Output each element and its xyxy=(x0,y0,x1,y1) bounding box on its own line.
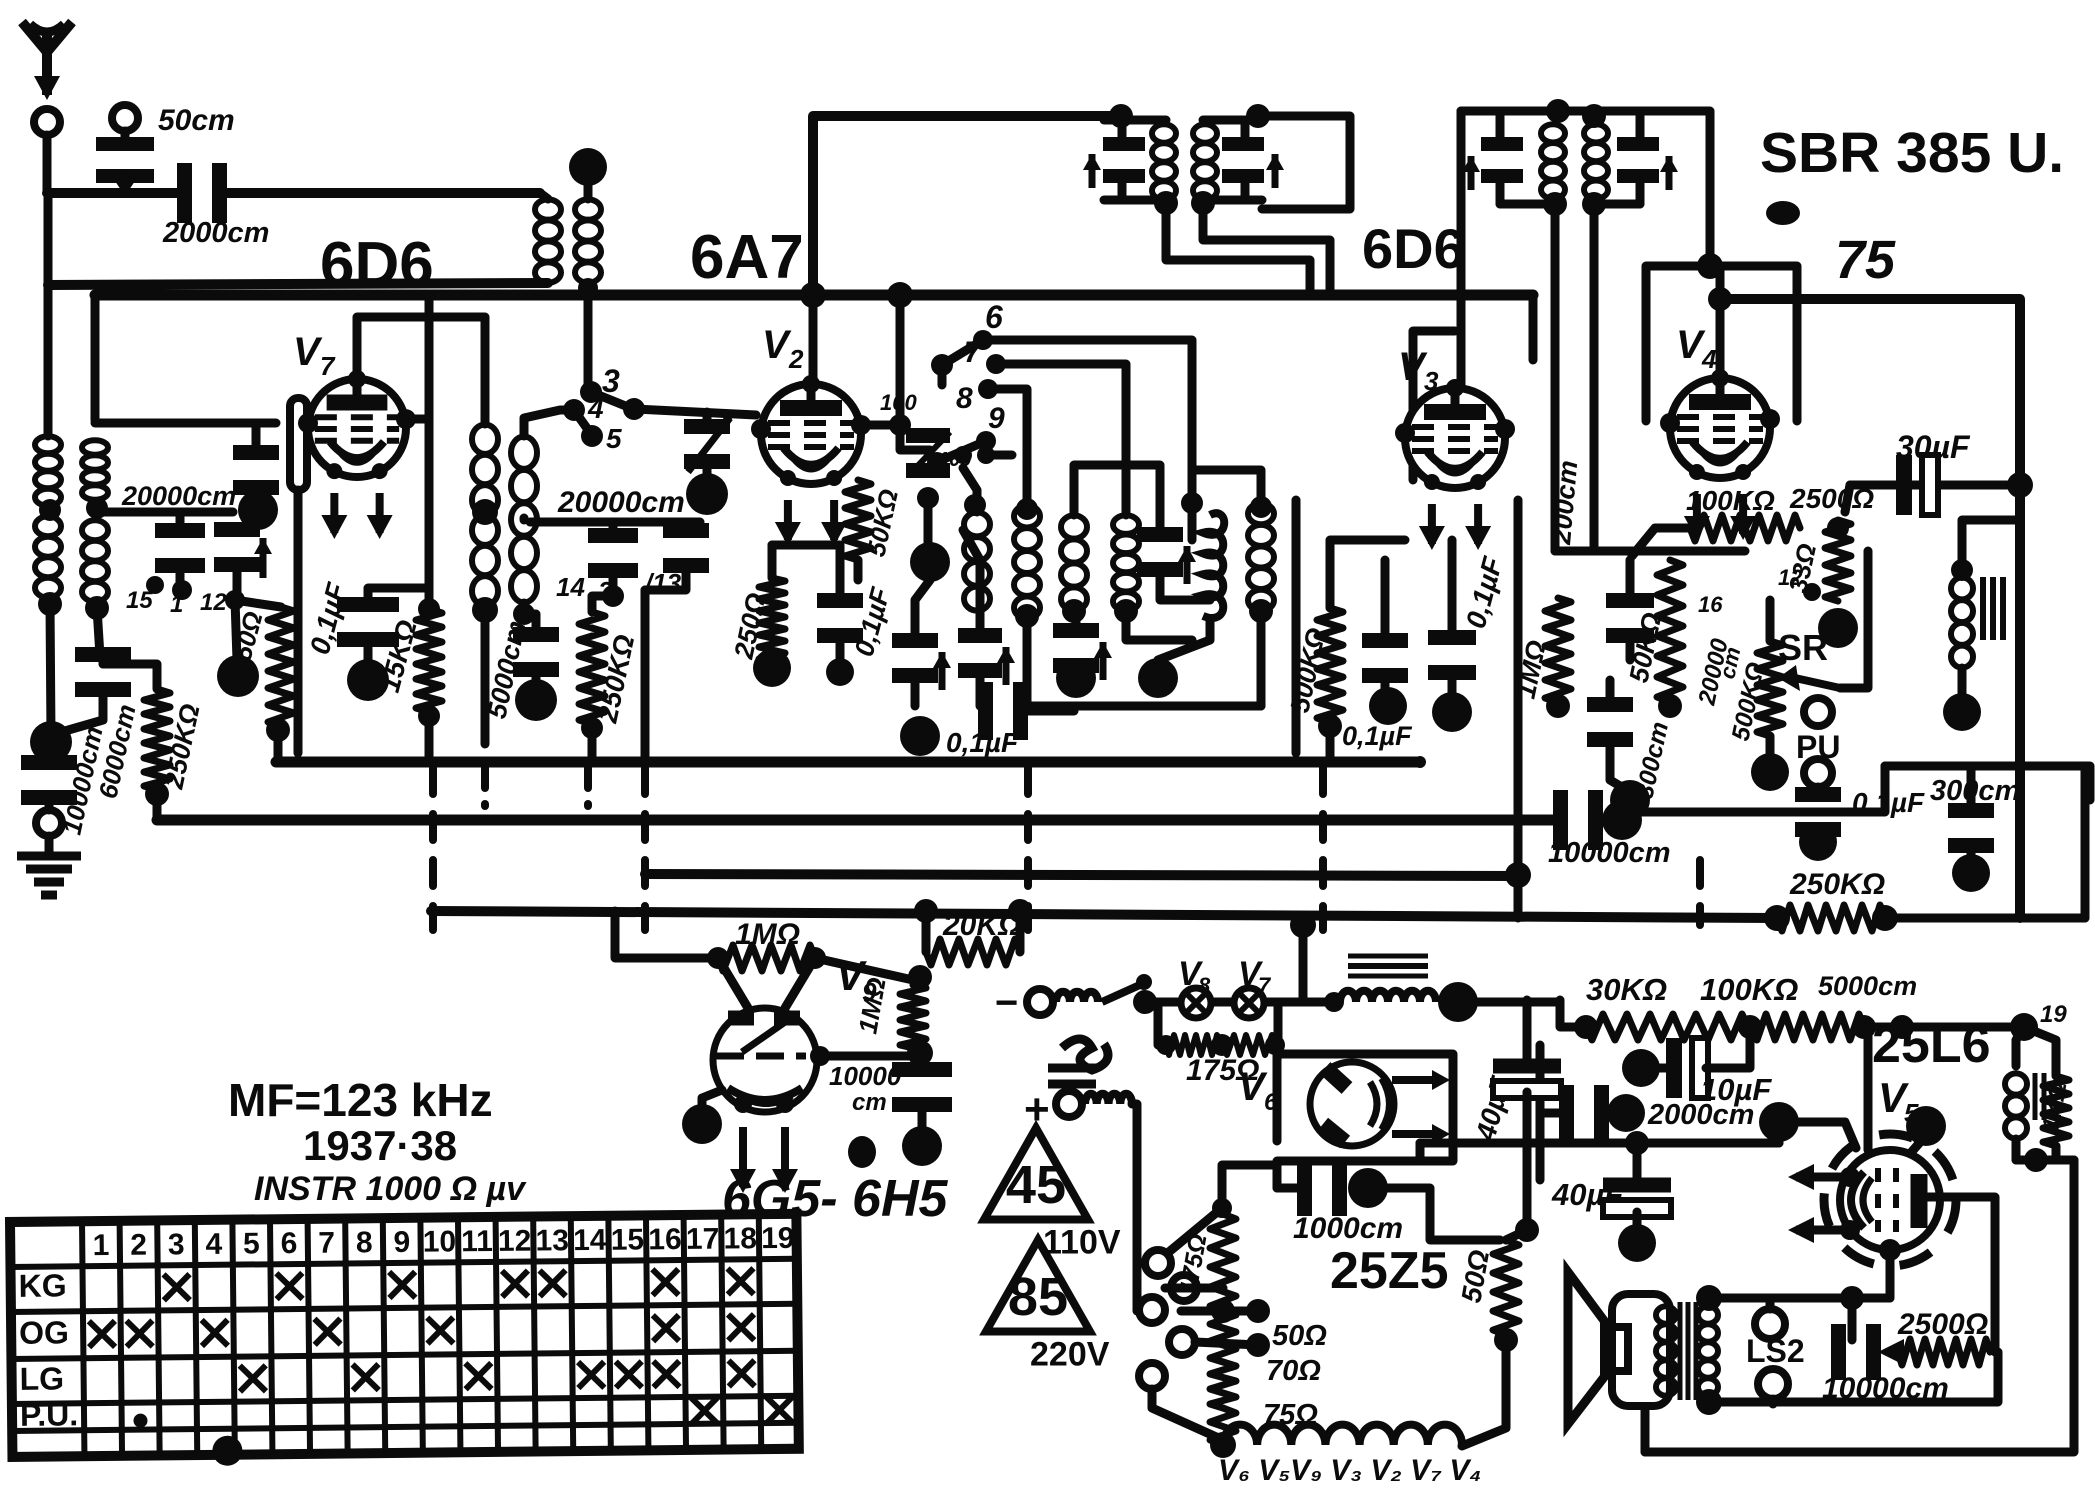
label 100K v4 xyxy=(1686,485,1775,516)
arrow under c3 xyxy=(1094,642,1112,680)
resistor 1M v9 xyxy=(718,945,815,971)
label V2 sub xyxy=(788,344,804,374)
ift4 arrow xyxy=(1660,156,1678,190)
wire hum down xyxy=(2016,1156,2074,1165)
wire 1000cm dn xyxy=(1368,1188,1500,1240)
label 50ohm b xyxy=(1455,1247,1495,1305)
wire pivot6 down xyxy=(938,365,947,385)
label 50000cm xyxy=(482,618,532,721)
capacitor 20000cm mid xyxy=(588,536,638,571)
junction 2000cm xyxy=(1607,1094,1645,1132)
label SBR 385 U. xyxy=(1760,121,2064,185)
label cm v9 xyxy=(852,1089,887,1116)
lead cap50 to bus xyxy=(121,178,130,193)
capacitor padder xyxy=(906,436,950,471)
potentiometer 500K SR xyxy=(1757,641,1783,736)
junction v9cap bot xyxy=(902,1126,942,1166)
ift2 cap leads xyxy=(1241,120,1250,140)
wire 100K right xyxy=(1864,1023,1902,1032)
wire capB to blob xyxy=(235,600,237,660)
junction chain bot xyxy=(1210,1432,1236,1458)
wire V3 top xyxy=(1457,292,1466,388)
ift3 lead up xyxy=(1496,116,1505,140)
junction L6 bottom xyxy=(513,603,535,625)
label MF=123kHz xyxy=(228,1074,493,1126)
wire c2 drop xyxy=(1023,616,1032,706)
svg-text:1937·38: 1937·38 xyxy=(303,1122,457,1169)
label 75 xyxy=(1835,230,1896,290)
junction tone bot xyxy=(1943,693,1981,731)
label 175 xyxy=(1186,1054,1259,1087)
wire ift3 bottom xyxy=(1500,200,1551,209)
blob v9 xyxy=(848,1136,876,1168)
coil L6 osc sec xyxy=(511,436,537,603)
wire antenna bus xyxy=(47,188,180,198)
speaker cone xyxy=(1568,1272,1628,1424)
capacitor out 10000cm xyxy=(1839,1324,1874,1380)
coil speaker primary xyxy=(1656,1306,1676,1396)
wire 250K to bus xyxy=(153,794,162,820)
label 13 xyxy=(644,568,682,598)
wire 2000cm left xyxy=(1540,1109,1562,1118)
wire 40uF2 up xyxy=(1633,1143,1642,1182)
wire hum top xyxy=(1902,1023,2024,1032)
coil osc c4 xyxy=(1113,515,1139,611)
wire pot top xyxy=(1766,600,1775,641)
capacitor grid V7 xyxy=(233,453,279,488)
resistor 250K left xyxy=(144,689,170,790)
resistor 175 B xyxy=(1224,1035,1275,1055)
contact 8 xyxy=(978,379,998,399)
lead c20k mid xyxy=(609,522,618,531)
label 50K v2 xyxy=(861,486,904,559)
wire c6 top up xyxy=(1192,470,1261,503)
junction v3cap bot xyxy=(1432,692,1472,732)
wire v2 cath link xyxy=(772,545,840,596)
antenna terminal A1 xyxy=(34,109,60,135)
coil L2 antenna secondary xyxy=(575,199,601,283)
wire V7 plate to right xyxy=(406,415,429,424)
wire v5 cath xyxy=(1886,1250,1895,1298)
svg-text:P.U.: P.U. xyxy=(20,1396,78,1433)
junction cap01 bottom xyxy=(347,659,389,701)
svg-text:1000cm: 1000cm xyxy=(1293,1212,1403,1245)
label SR xyxy=(1778,627,1828,668)
junction L3 bottom xyxy=(38,592,62,616)
dashed stub x588 xyxy=(584,766,592,806)
label 40uF 2 xyxy=(1551,1177,1624,1212)
svg-text:10: 10 xyxy=(423,1225,457,1258)
switch out 3 xyxy=(623,398,645,420)
capacitor 30uF xyxy=(1904,455,1938,515)
arrowhead cap50 xyxy=(113,178,137,196)
wire 50b down xyxy=(1462,1340,1506,1446)
junction 50K bot xyxy=(1658,694,1682,718)
wire lamp rect xyxy=(1145,998,1336,1007)
label 6G5-6H5 xyxy=(722,1170,949,1228)
resistor 500K v3 xyxy=(1317,608,1343,722)
wire spk bot run xyxy=(1709,1398,1890,1407)
wire b+ run xyxy=(1420,1139,1779,1148)
coil L4b grid xyxy=(82,520,108,602)
junction tone top xyxy=(1951,559,1973,581)
wire 40uF2 dn xyxy=(1633,1212,1642,1232)
label 200cm xyxy=(1546,459,1583,546)
wire c5cap up xyxy=(1074,465,1160,530)
coil ift2 xyxy=(1193,124,1217,200)
svg-text:V: V xyxy=(762,323,792,367)
svg-text:1: 1 xyxy=(170,591,183,618)
lead LS1 xyxy=(1766,1298,1775,1309)
label 2 xyxy=(597,576,613,606)
wire V7 plate up xyxy=(425,295,434,419)
label V7b sub xyxy=(1258,973,1272,998)
junction capA bottom xyxy=(172,580,192,600)
junction ift4 bottom xyxy=(1582,192,1606,216)
wire blob down xyxy=(49,742,51,762)
label 50ohm xyxy=(227,608,269,663)
svg-text:250KΩ: 250KΩ xyxy=(1789,868,1885,901)
coil osc c6 xyxy=(1248,503,1274,611)
v6 electrodes xyxy=(1323,1068,1390,1142)
junction 33 bot xyxy=(1818,608,1858,648)
tube V2 6A7 xyxy=(751,375,871,546)
contact 5 xyxy=(581,425,603,447)
ift4 lead dn xyxy=(1636,180,1645,204)
wire V3 rect xyxy=(1413,331,1455,480)
svg-text:4: 4 xyxy=(1701,344,1717,374)
junction 100K right xyxy=(1827,517,1849,539)
wire main bus y295 xyxy=(95,290,1533,301)
coil L3a antenna xyxy=(35,436,61,506)
dashed gang line 4 xyxy=(1319,768,1327,930)
wire oscB up xyxy=(963,530,980,631)
wire c7 run xyxy=(996,364,1126,515)
svg-text:2: 2 xyxy=(130,1229,147,1262)
junction 300cm bot xyxy=(1952,854,1990,892)
label 100b xyxy=(938,449,971,471)
junction c1 top xyxy=(964,494,986,516)
wire V4 rect xyxy=(1646,266,1797,421)
capacitor osc B xyxy=(958,636,1002,671)
junction tap2b xyxy=(1211,1299,1235,1323)
coil plus lead xyxy=(1085,1094,1132,1104)
label 0.1uF V7 xyxy=(304,579,353,658)
wire plus run xyxy=(1132,1104,1137,1311)
wire cap300 up xyxy=(1606,680,1615,700)
wire tap1 xyxy=(1165,1284,1223,1293)
junction L5 mid xyxy=(472,499,498,525)
junction L5 bottom xyxy=(472,597,498,623)
junction c20k mid xyxy=(602,585,624,607)
lead cmidr xyxy=(682,522,691,526)
wire box rail2 xyxy=(97,508,233,517)
capacitor mid right xyxy=(663,531,709,566)
contact 6 xyxy=(973,330,993,350)
label 16 xyxy=(1698,592,1723,617)
label 6D6 V7 xyxy=(320,230,434,299)
wire x1296 col xyxy=(1292,500,1301,753)
label 15K xyxy=(374,617,423,696)
label 40uF 1 xyxy=(1470,1072,1517,1144)
resistor 1M v9b xyxy=(900,985,926,1048)
svg-text:LG: LG xyxy=(19,1360,64,1396)
svg-text:7: 7 xyxy=(320,351,336,381)
coil osc c5 xyxy=(1203,513,1224,618)
wire 250K top xyxy=(103,664,157,689)
svg-text:15: 15 xyxy=(126,587,153,614)
coil osc c3 xyxy=(1061,515,1087,611)
contact 100b xyxy=(977,446,995,464)
junction 100K R xyxy=(1852,1015,1876,1039)
wire lamp to v6rect xyxy=(1277,1045,1278,1060)
wire L4 capchain xyxy=(99,656,108,664)
junction 15K bottom xyxy=(418,705,440,727)
svg-text:19: 19 xyxy=(2040,1001,2067,1028)
lead cap01 down xyxy=(364,644,373,668)
grid side loop V7 xyxy=(290,398,307,490)
label 250K bus xyxy=(1789,868,1885,901)
label 33 xyxy=(1783,541,1823,595)
svg-text:25Z5: 25Z5 xyxy=(1330,1242,1449,1300)
lead cmidr dn xyxy=(645,570,686,590)
contact 12 sr xyxy=(1803,583,1821,601)
wire ift4 bottom xyxy=(1594,200,1640,209)
label minus xyxy=(995,981,1018,1025)
junction 1M left xyxy=(707,947,729,969)
junction spk v5 xyxy=(1840,1286,1864,1310)
dashed stub x485 xyxy=(481,766,489,806)
wire ift2 bottom xyxy=(1203,196,1262,205)
wire V2 grid right xyxy=(861,425,930,450)
wire tone dn xyxy=(1958,668,1967,700)
table wave-band matrix xyxy=(10,1214,799,1468)
coil tone xyxy=(1951,577,1973,668)
label 20000 sr xyxy=(1693,636,1734,709)
tube V5 dashed xyxy=(1824,1134,1956,1266)
svg-text:100KΩ: 100KΩ xyxy=(1700,972,1798,1007)
svg-text:20000cm: 20000cm xyxy=(557,486,685,519)
svg-text:2500Ω: 2500Ω xyxy=(1897,1308,1988,1341)
junction c3 bottom xyxy=(1062,599,1086,623)
junction spk bot xyxy=(1696,1389,1722,1415)
label 12 sr xyxy=(1778,565,1803,590)
label 0.1uF v2 xyxy=(849,583,896,659)
capacitor 10uF xyxy=(1674,1038,1708,1098)
capacitor V2 cath xyxy=(817,601,863,636)
wire PU lead xyxy=(1814,787,1823,794)
coil L3b antenna xyxy=(35,516,61,598)
wire 6D6 loop left xyxy=(44,193,53,285)
label 1937-38 xyxy=(303,1122,457,1169)
svg-text:12: 12 xyxy=(1778,565,1803,590)
capacitor 2000cm b xyxy=(1567,1085,1602,1141)
junction hum l xyxy=(1890,1015,1914,1039)
svg-text:MF=123 kHz: MF=123 kHz xyxy=(228,1074,493,1126)
wire mid rail xyxy=(530,518,700,527)
wire c4 drop xyxy=(1126,611,1192,640)
dashed gang line 5 xyxy=(1696,860,1704,925)
label 50cm xyxy=(158,104,235,137)
label plus xyxy=(1024,1085,1050,1134)
wire x1192 seg xyxy=(1188,470,1197,540)
svg-text:16: 16 xyxy=(1698,592,1723,617)
label hum val xyxy=(2037,1079,2072,1133)
resistor hum xyxy=(2043,1076,2069,1146)
junction lamp rr xyxy=(1265,1035,1285,1055)
label LS2 xyxy=(1746,1333,1805,1369)
svg-text:0,1µF: 0,1µF xyxy=(946,727,1019,758)
wire ift2 loop xyxy=(1258,116,1350,209)
label 0.1uF v3 xyxy=(1460,553,1509,632)
wire 40uF1 dn xyxy=(1523,1092,1532,1222)
junction 20K right xyxy=(1008,899,1032,923)
resistor 250K mid xyxy=(579,612,605,724)
label 1M v9b xyxy=(852,975,891,1036)
junction padder V2 xyxy=(686,473,728,515)
contact 100a xyxy=(954,446,972,464)
junction tap3 xyxy=(1246,1333,1270,1357)
resistor mains 50 xyxy=(1210,1311,1236,1362)
resistor 250ohm xyxy=(759,578,785,662)
capacitor trim left B xyxy=(214,530,260,565)
label 500K sr xyxy=(1726,660,1770,743)
label 100K b xyxy=(1700,972,1798,1007)
junction v5 grid in xyxy=(1759,1102,1799,1142)
label 10000cm xyxy=(57,724,109,838)
wire V2 top xyxy=(809,295,818,385)
label 30uF xyxy=(1896,429,1971,465)
antenna xyxy=(22,22,72,100)
terminal A2 xyxy=(112,105,138,131)
v9 arrows xyxy=(730,1127,798,1193)
junction v9b xyxy=(907,1040,933,1066)
junction lamp rl xyxy=(1156,1035,1176,1055)
label 10uF xyxy=(1700,1072,1772,1107)
label V9 xyxy=(836,952,867,999)
lead c20k mid dn xyxy=(609,575,618,592)
svg-text:6: 6 xyxy=(1264,1089,1278,1116)
wire 2000cm col xyxy=(1536,1045,1545,1180)
wire out loop xyxy=(1645,1160,2074,1452)
junction 50b bot xyxy=(1494,1328,1518,1352)
wire v5 top stem xyxy=(1908,1140,1922,1156)
wire ift4 top xyxy=(1558,111,1710,266)
resistor 50ohm xyxy=(268,607,294,726)
ift4 lead up xyxy=(1636,116,1645,140)
wire L6 bottom xyxy=(520,603,529,614)
junction 75 loop xyxy=(1708,287,1732,311)
wire L6 top hook xyxy=(524,410,574,436)
capacitor PU xyxy=(1795,795,1841,830)
label 6 xyxy=(985,299,1003,335)
svg-text:10000cm: 10000cm xyxy=(1548,837,1671,869)
junction V2 grid xyxy=(889,414,911,436)
arrow osc A xyxy=(933,652,951,690)
label 8 xyxy=(956,382,973,415)
junction 40uF2 top xyxy=(1625,1131,1649,1155)
svg-text:10000: 10000 xyxy=(829,1061,902,1091)
v6 arrows xyxy=(1392,1070,1450,1144)
junction busE x1420 xyxy=(1414,756,1426,768)
wire V7 grid top xyxy=(357,317,485,424)
label V7b xyxy=(1238,955,1264,993)
wire 500K dn xyxy=(1326,726,1335,758)
label 14 xyxy=(556,572,585,602)
arrow osc B xyxy=(997,647,1015,685)
terminal LS 1 xyxy=(1755,1309,1785,1339)
junction 500K bot xyxy=(1318,714,1342,738)
junction oscA bot xyxy=(900,716,940,756)
power sw blade xyxy=(1164,1198,1232,1256)
ift3 lead dn xyxy=(1496,180,1505,204)
wire 15K to bus xyxy=(425,716,434,758)
junction 40uF2 bot xyxy=(1618,1224,1656,1262)
svg-text:11: 11 xyxy=(461,1225,493,1258)
wire 250ohm top xyxy=(768,545,777,578)
wire v9 feed xyxy=(615,911,718,958)
junction choke L xyxy=(1324,992,1344,1012)
wire 40uF1 up xyxy=(1523,1000,1532,1062)
junction 250K busR xyxy=(1872,905,1898,931)
svg-text:9: 9 xyxy=(393,1226,410,1259)
resistor mains 75b xyxy=(1210,1408,1236,1445)
triangle 45 110V xyxy=(984,1128,1121,1262)
label 1000cm xyxy=(1293,1212,1403,1245)
wire c9 run xyxy=(986,451,1012,460)
wire oscA up xyxy=(915,580,930,636)
ift2 arrow xyxy=(1266,154,1284,188)
capacitor 2000cm xyxy=(185,163,220,223)
wire cap 2500 feed xyxy=(1848,1298,1857,1340)
lamp V8 xyxy=(1181,988,1211,1018)
label V3 sub xyxy=(1424,366,1439,396)
svg-text:−: − xyxy=(995,981,1018,1025)
wire screen drop xyxy=(1864,1027,1873,1150)
svg-text:50cm: 50cm xyxy=(158,104,235,137)
wire 13 lead xyxy=(641,590,650,758)
label 2500 out xyxy=(1897,1308,1988,1341)
junction ift3 top xyxy=(1546,99,1570,123)
junction tap2 xyxy=(1246,1299,1270,1323)
resistor 175 A xyxy=(1166,1035,1220,1055)
coil choke xyxy=(1340,991,1436,1002)
label 500K v3 xyxy=(1285,625,1332,715)
wire bus y875 xyxy=(645,874,1518,876)
svg-text:INSTR 1000 Ω µv: INSTR 1000 Ω µv xyxy=(254,1170,527,1208)
wire lamp rect l xyxy=(1158,1002,1166,1045)
label 50K right xyxy=(1624,610,1668,685)
junction cap300 bot xyxy=(1610,780,1650,820)
capacitor 10000cm bus xyxy=(1561,790,1596,850)
wire 500K top xyxy=(1330,540,1405,608)
resistor 20K xyxy=(926,939,1020,965)
capacitor ift2 xyxy=(1222,144,1264,176)
svg-text:2000cm: 2000cm xyxy=(162,217,269,249)
junction 40uF1 bot xyxy=(1515,1218,1539,1242)
wire 5000cm up xyxy=(524,614,536,630)
svg-text:2: 2 xyxy=(788,344,804,374)
lead 300cm xyxy=(1967,850,1976,862)
label V3 xyxy=(1398,345,1428,389)
resistor 33ohm xyxy=(1825,520,1851,601)
capacitor ground 2 xyxy=(21,763,77,798)
tube V5 body xyxy=(1840,1150,1940,1250)
svg-text:cm: cm xyxy=(852,1089,887,1116)
wire 30uF run xyxy=(1850,481,2020,490)
wire hum leads xyxy=(2016,1027,2024,1066)
svg-text:12: 12 xyxy=(200,589,227,616)
